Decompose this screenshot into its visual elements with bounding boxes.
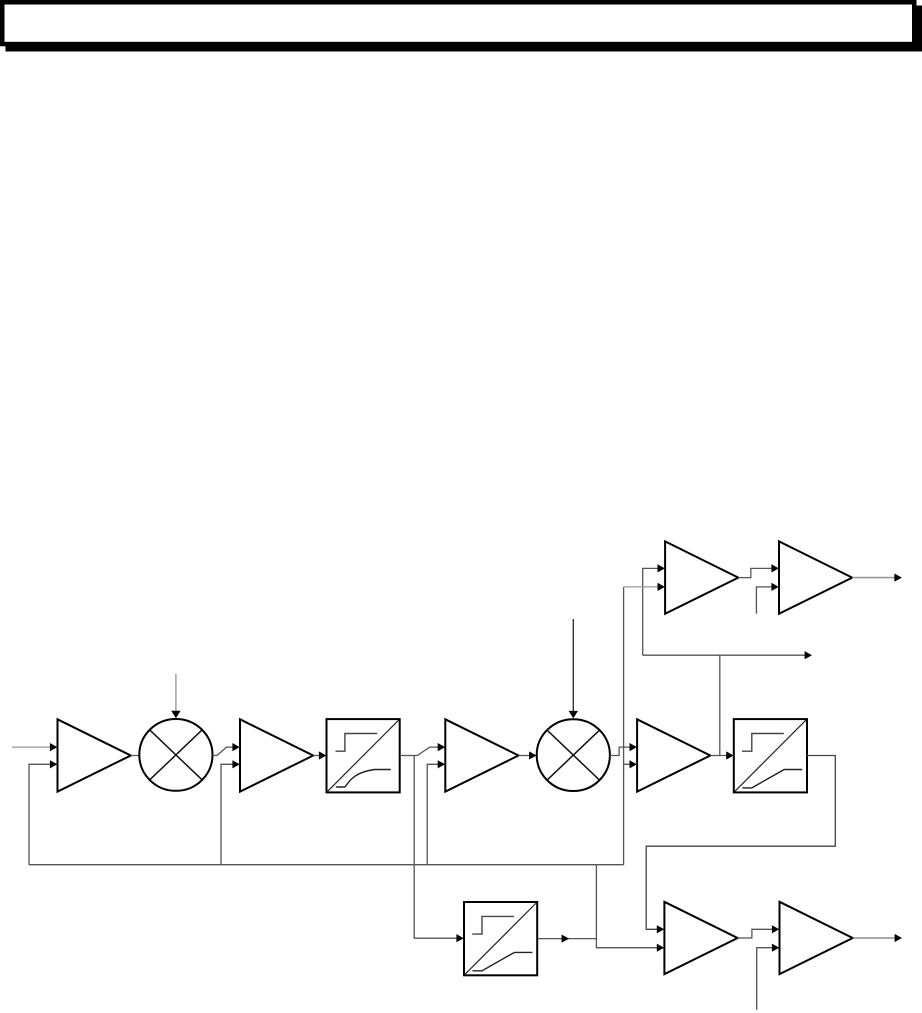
wire: feedback to A1 lower input [29, 764, 51, 864]
wire: control line above M2 [572, 619, 574, 713]
amplifier A7 [664, 902, 737, 974]
wire: A1 apex to multiplier M1 [131, 755, 140, 757]
amplifier A8 [780, 902, 853, 974]
wire: A6 output [852, 577, 895, 579]
wire: branch up from A4 output node to upper line [719, 655, 721, 755]
arrow into A8 lower input [772, 944, 779, 952]
arrow on upper output line [805, 651, 812, 659]
arrow into A6 lower input [771, 583, 778, 591]
limiter L1 [327, 719, 400, 792]
amplifier A3 [445, 719, 518, 791]
wire: A2 apex to limiter L1 [313, 755, 319, 757]
wire: stub into A8 lower input [757, 948, 773, 1010]
wire: up to A5 upper input [643, 568, 658, 655]
wire: A5 apex square jog to A6 upper input [738, 568, 772, 577]
limiter L2 [734, 719, 807, 792]
wire: A4 apex to limiter L2 [710, 755, 726, 757]
arrow into A4 lower input [630, 760, 637, 768]
title bar box [2, 2, 914, 44]
amplifier A1 [58, 719, 131, 791]
arrow into A2 lower input [232, 760, 239, 768]
amplifier A2 [240, 719, 313, 791]
wire: A3 apex to multiplier M2 [519, 755, 530, 757]
arrow into L1 [319, 751, 326, 759]
wire: A8 output [853, 937, 895, 939]
arrow into A7 upper input [657, 925, 664, 933]
arrow into A5 lower input [658, 583, 665, 591]
arrow into A2 upper input [232, 743, 239, 751]
amplifier A5 [665, 541, 738, 613]
multiplier M2 [537, 719, 610, 791]
arrow into A8 upper input [772, 925, 779, 933]
wire: M1 output jog to A2 upper input [213, 747, 234, 755]
wire: bus drop to A7 lower input [596, 865, 657, 948]
wire: stub into A6 lower input [756, 587, 772, 614]
arrow into A7 lower input [657, 944, 664, 952]
wire: feedback to A3 lower input [427, 764, 438, 864]
wire: L3 output joining A7 lower feed [538, 938, 597, 940]
wire: input line into A1 [12, 746, 50, 748]
wire: L2 output down and around to A7 upper input [646, 756, 835, 930]
wire: feedback to A2 lower input [221, 764, 233, 864]
arrow into L3 [456, 934, 463, 942]
amplifier A6 [779, 541, 852, 613]
arrow into A3 lower input [438, 760, 445, 768]
arrow into A6 upper input [771, 564, 778, 572]
wire: branch from L1 output down to limiter L3 [414, 756, 456, 939]
arrow into M2 top [569, 711, 578, 719]
multiplier M1 [139, 719, 212, 791]
arrow into M1 top [171, 711, 180, 719]
wire: L1 output with jog to A3 upper input [400, 747, 438, 755]
arrow into L2 [726, 751, 733, 759]
arrow on L3 output wire [562, 935, 569, 943]
amplifier A4 [637, 719, 710, 791]
wire: control line above M1 [175, 674, 177, 713]
wire: A7 apex square jog to A8 upper input [738, 929, 773, 938]
wire: vertical feedback line v1 tapping A4 lower input and A5 lower input [624, 587, 630, 865]
arrow into A3 upper input [438, 743, 445, 751]
wire: feedback to A5 lower input from v1 [624, 586, 658, 588]
arrow at A8 output [895, 934, 902, 942]
title bar drop shadow [6, 6, 922, 52]
arrow into A4 upper input [630, 743, 637, 751]
arrow into A1 lower input [50, 760, 57, 768]
arrow into A1 upper input [50, 743, 57, 751]
wire: upper horizontal output line with arrow [643, 654, 805, 656]
limiter L3 [464, 902, 537, 975]
arrow at A6 output [894, 574, 901, 582]
wire: feedback bus [29, 864, 624, 866]
wire: M2 output square jog to A4 upper input [610, 747, 630, 755]
arrow into A5 upper input [658, 564, 665, 572]
arrow into M2 left [529, 751, 536, 759]
